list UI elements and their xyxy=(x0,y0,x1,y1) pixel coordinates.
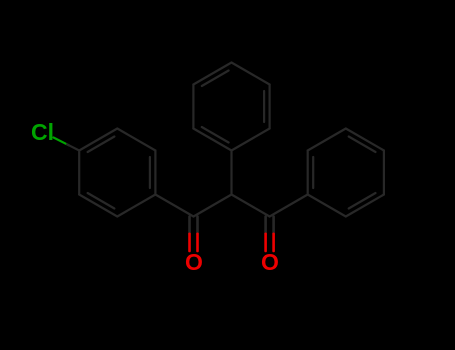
benzene ring right (phenyl on C3) xyxy=(308,129,384,217)
atom label O left xyxy=(185,249,203,276)
bond C3 to right ring ipso xyxy=(270,195,308,217)
benzene ring left (4-chlorophenyl) xyxy=(79,129,155,217)
bond Cl to ring (green half) xyxy=(54,138,69,146)
bond C2 to top ring ipso xyxy=(230,151,232,195)
carbonyl C=O double bond (left) xyxy=(190,217,198,252)
bond C1 to C2 xyxy=(194,195,232,217)
bond ring-left ipso to carbonyl C1 xyxy=(155,195,193,217)
carbonyl C=O double bond (right) xyxy=(266,217,274,252)
atom label Cl xyxy=(31,119,54,146)
bond Cl to ring (carbon half) xyxy=(67,144,79,150)
benzene ring top (phenyl on C2) xyxy=(193,63,269,151)
bond C2 to C3 xyxy=(232,195,270,217)
atom label O right xyxy=(261,249,279,276)
